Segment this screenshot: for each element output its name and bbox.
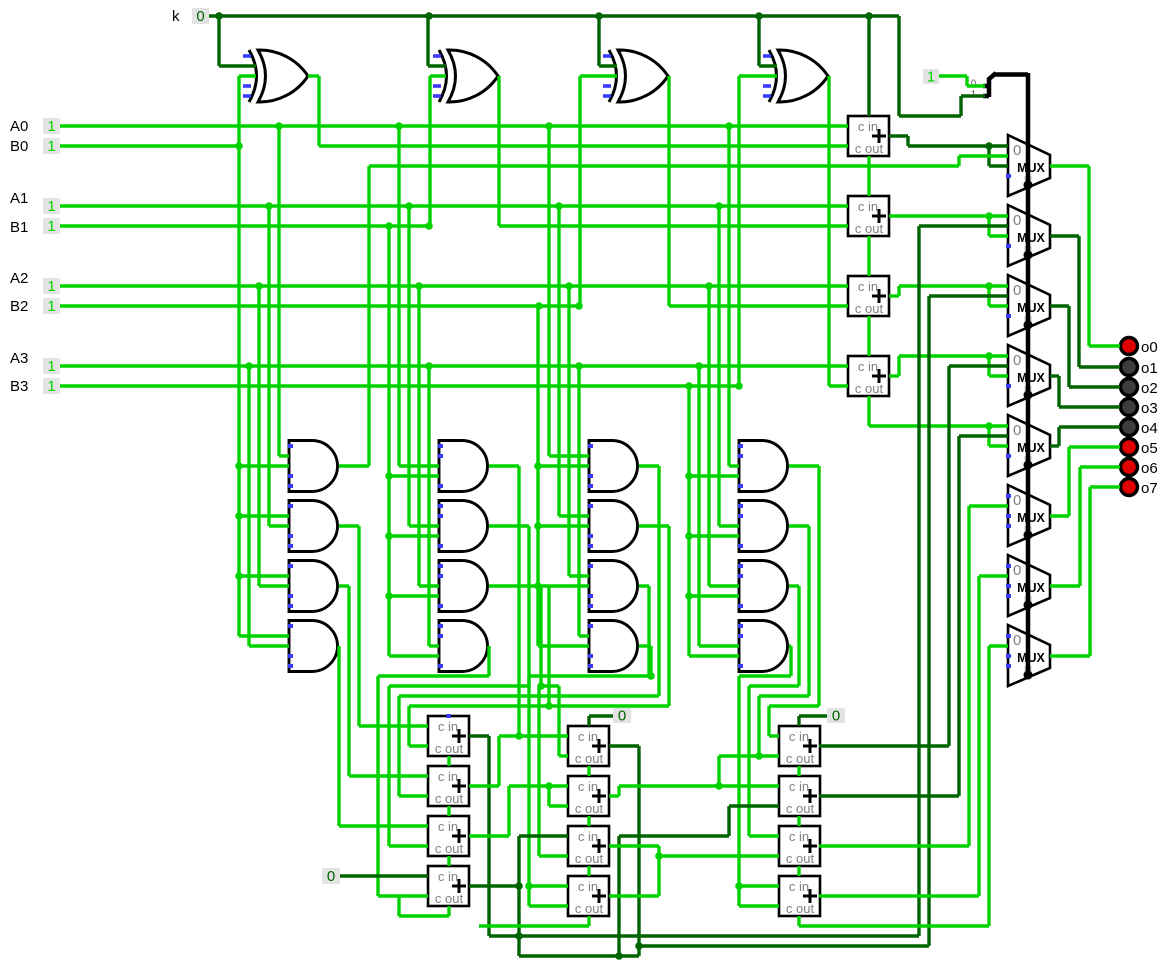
junction B1 col2 [385,222,393,230]
and gate col2 row y586 [439,561,488,612]
wire mux5 out to o4 [1050,427,1120,446]
wire g41 out chain to BR1.A [769,466,819,736]
svg-text:1: 1 [47,358,55,375]
wire g23 out chain to BM1.B/BM3.B [489,586,568,856]
junction col1 B0 g3 [235,572,243,580]
svg-text:MUX: MUX [1017,301,1045,315]
and gate col1 row y526 [289,501,338,552]
junction A0 col1 [275,122,283,130]
junction B2 col3 [535,302,543,310]
svg-text:B3: B3 [10,378,28,395]
svg-text:c out: c out [855,221,884,236]
output pin o3 [1121,399,1138,416]
output pin o6 [1121,459,1138,476]
svg-text:1: 1 [47,278,55,295]
junction A2 col3 [565,282,573,290]
svg-text:MUX: MUX [1017,161,1045,175]
wire B1 to xor2 [430,76,446,226]
constant 0 pin (bottom-left adder cin) [322,868,340,884]
svg-text:0: 0 [1013,142,1021,159]
junction bm x639 [635,942,643,950]
junction g44 br4a [735,882,743,890]
wire p1 vertical [917,226,920,936]
wire A3 line [60,364,848,367]
svg-text:0: 0 [1013,492,1021,509]
mux M2 [1008,205,1050,266]
svg-text:0: 0 [1013,632,1021,649]
wire adder2 sum to mux2 [889,216,1008,236]
junction A3 col1 [245,362,253,370]
xor gate X2 [439,50,447,102]
junction B0 tap [235,142,243,150]
wire mux6 out to o5 [1050,447,1120,516]
svg-text:1: 1 [47,218,55,235]
svg-text:c in: c in [438,819,458,834]
junction col1 B0 g1 [235,462,243,470]
svg-text:c in: c in [578,829,598,844]
wire select bus [1026,73,1031,678]
wire B0 line [60,144,239,147]
wire B0 to xor1 [239,76,256,146]
svg-text:0: 0 [327,868,335,885]
adder BM2 (bottom-middle column) [568,776,609,816]
adder U2 (right column) [848,196,889,236]
mux M6 [1008,485,1050,546]
wire col1 A1 vert [269,206,289,526]
wire B1 line [60,224,430,227]
junction col3 B2 g1 [534,462,542,470]
output pin o2 [1121,379,1138,396]
input pin A2 [43,278,60,294]
wire B2 line [60,304,580,307]
junction g33 bm4a [525,882,533,890]
mux M5 [1008,415,1050,476]
wire g32 out chain to BL1.B [409,526,669,746]
wire adder3 sum to mux3 [889,286,1008,306]
wire BR1 out p3 chain [819,366,1008,746]
svg-text:c out: c out [786,751,815,766]
junction k-3 [595,12,603,20]
wire mux1 out to o0 [1050,166,1120,346]
wire g13 out to BL2.A [339,586,428,776]
junction select tap [1024,321,1032,329]
output pin o7 [1121,479,1138,496]
wire adder4 cout to mux5 [869,396,1008,446]
wire k line [209,16,985,116]
junction A2 col1 [255,282,263,290]
mux M3 [1008,275,1050,336]
svg-text:c out: c out [575,751,604,766]
junction A0 col3 [545,122,553,130]
svg-text:c out: c out [855,301,884,316]
svg-text:o4: o4 [1141,420,1158,437]
junction bl x519 c [515,932,523,940]
svg-text:o2: o2 [1141,380,1158,397]
junction B3 xor4 [735,382,743,390]
wire col3 A0 vert [549,126,589,456]
wire col1 A0 vert [279,126,289,456]
junction s2 mux3 [985,282,993,290]
svg-text:c in: c in [858,279,878,294]
wire g14 out to BL3.A [339,646,428,826]
svg-text:c in: c in [578,879,598,894]
output pin o1 [1121,359,1138,376]
input pin B2 [43,298,60,314]
svg-text:c out: c out [786,801,815,816]
wire g42 out chain to BR1.B [759,526,809,756]
splitter (2-bit select bus) [983,73,996,97]
wire g43 out chain to BR3.A [749,586,799,836]
svg-text:MUX: MUX [1017,231,1045,245]
mux floating in3 stub [1006,174,1011,178]
wire col3 A3 vert [579,366,589,636]
wire g44 out chain to BR4.A/B [739,646,791,906]
mux M8 [1008,625,1050,686]
adder BL1 floating cin stub [447,714,451,718]
wire 0 to BL4.A [340,874,428,877]
junction k-5 [865,12,873,20]
wire mux7 out to o6 [1050,467,1120,586]
wire BM3 cout [587,866,590,876]
svg-text:k: k [172,8,180,25]
wire col3 A2 vert [569,286,589,576]
mux floating stubs [1006,634,1011,638]
wire mux4 out to o3 [1050,376,1120,407]
and gate col2 row y526 [439,501,488,552]
junction col4 B3 g1 [685,472,693,480]
junction A0 col2 [395,122,403,130]
mux floating stubs [1006,494,1011,498]
svg-text:1: 1 [927,69,935,86]
svg-text:c in: c in [789,879,809,894]
svg-text:o1: o1 [1141,360,1158,377]
wire 0 to BR1 cin [799,716,827,726]
adder BL2 (bottom-left column) [428,766,469,806]
input pin constant 1 (select) [923,69,939,84]
junction bm34 x659 [655,852,663,860]
adder BR2 (bottom-right column) [779,776,820,816]
junction col2 B1 g3 [385,592,393,600]
wire g21 out [489,466,519,736]
wire BR4 cout to p7 [799,646,1008,926]
adder BL1 (bottom-left column) [428,716,469,756]
junction A1 col3 [555,202,563,210]
svg-text:c out: c out [435,841,464,856]
mux floating stubs [1006,564,1011,568]
svg-text:B0: B0 [10,138,28,155]
and gate col4 row y526 [739,501,788,552]
input pin A0 [43,118,60,134]
svg-text:0: 0 [1013,282,1021,299]
wire B2 to xor3 [580,76,617,306]
and gate col1 row y466 [289,441,338,492]
svg-text:MUX: MUX [1017,581,1045,595]
junction x719 h786 [715,782,723,790]
wire BR3 out p5 chain [819,506,1008,846]
wire g34 out [639,646,651,676]
wire BM1 out (dark) p2 chain [609,746,929,956]
junction select tap [1024,601,1032,609]
wire col4 B3 vert [689,386,739,656]
svg-text:c out: c out [435,891,464,906]
wire col2 B1 vert [389,226,439,656]
svg-text:c out: c out [786,851,815,866]
and gate col4 row y466 [739,441,788,492]
adder U1 (right column) [848,116,889,156]
wire adder4 sum to mux4 [889,356,1008,376]
junction select tap [1024,181,1032,189]
wire xor3 out [669,76,848,306]
junction col3 B2 g2 [534,522,542,530]
svg-text:1: 1 [47,118,55,135]
svg-text:o6: o6 [1141,460,1158,477]
svg-text:c out: c out [575,801,604,816]
svg-text:c in: c in [578,729,598,744]
svg-text:o5: o5 [1141,440,1158,457]
junction A2 col2 [415,282,423,290]
wire B3 line [60,384,739,387]
xor gate X4 [769,50,777,102]
mux M1 [1008,135,1050,196]
input pin B3 [43,378,60,394]
svg-text:o0: o0 [1141,339,1158,356]
wire col4 A0 vert [729,126,739,466]
wire select bus top [994,72,1028,77]
xor gate X1 [249,50,257,102]
svg-text:c in: c in [438,869,458,884]
wire BM2 out to BR2.A [609,786,779,796]
wire g22 out chain to BL3.B [389,526,529,846]
junction A0 col4 [725,122,733,130]
wire x549 to BM2.B [549,786,568,806]
wire col2 A1 vert [409,206,439,526]
svg-text:MUX: MUX [1017,511,1045,525]
adder BR3 (bottom-right column) [779,826,820,866]
wire 0 to BM1 cin [589,716,613,726]
wire BR3 cout [797,866,800,876]
junction k-4 [755,12,763,20]
junction A1 col1 [265,202,273,210]
adder BM3 (bottom-middle column) [568,826,609,866]
input pin k [192,8,209,24]
wire col1 B0 vert [239,146,289,636]
wire A0 line [60,124,848,127]
junction y706 x549 [545,702,553,710]
wire BL4 cout [399,896,449,916]
junction s4 mux5 [985,422,993,430]
output pin o5 [1121,439,1138,456]
and gate col3 row y646 [589,621,638,672]
junction A3 col4 [695,362,703,370]
svg-text:c out: c out [855,141,884,156]
wire col3 B2 vert [538,306,589,646]
svg-text:c out: c out [575,851,604,866]
junction s3 mux4 [985,352,993,360]
wire BL1 out (dark) p1 chain [469,736,919,936]
wire p2 to mux3 [929,294,1008,297]
mux M7 [1008,555,1050,616]
wire select-1 to splitter [939,76,985,86]
wire col2 A3 vert [429,366,439,646]
svg-text:0: 0 [196,8,204,25]
adder BR4 (bottom-right column) [779,876,820,916]
junction s0 mux1 [985,142,993,150]
wire BL3 out to BM2.A [469,786,568,836]
adder BR1 (bottom-right column) [779,726,820,766]
wire mux2 out to o1 [1050,236,1120,367]
xor gate X3 [609,50,617,102]
wire col4 A2 vert [709,286,739,586]
svg-text:0: 0 [832,708,840,725]
svg-text:o7: o7 [1141,480,1158,497]
svg-text:c in: c in [858,359,878,374]
junction bm2 x549 [545,782,553,790]
svg-text:0: 0 [618,708,626,725]
svg-text:c in: c in [578,779,598,794]
wire B3 to xor4 [739,76,777,386]
wire BL3 cout [447,856,450,866]
wire mux8 out to o7 [1050,487,1120,656]
junction select tap [1024,251,1032,259]
svg-text:MUX: MUX [1017,371,1045,385]
input pin B1 [43,218,60,234]
svg-text:B2: B2 [10,298,28,315]
wire BM2 cout [587,816,590,826]
junction col2 B1 g2 [385,532,393,540]
and gate col4 row y646 [739,621,788,672]
svg-text:1: 1 [47,138,55,155]
svg-text:0: 0 [1013,352,1021,369]
junction col4 B3 g3 [685,592,693,600]
wire BM4 cout jog [479,916,589,926]
wire col2 A2 vert [419,286,439,586]
input pin A3 [43,358,60,374]
wire col1 A3 vert [249,366,289,646]
wire p2 vertical [927,296,930,946]
junction g42 br1b [755,752,763,760]
junction select tap [1024,531,1032,539]
junction k-1 [215,12,223,20]
junction A1 col2 [405,202,413,210]
svg-text:MUX: MUX [1017,441,1045,455]
mux floating in3 stub [1006,244,1011,248]
and gate col3 row y526 [589,501,638,552]
svg-text:c out: c out [435,791,464,806]
wire g33 out chain to BM4 [529,586,651,906]
junction col4 B3 g2 [685,532,693,540]
mux floating in3 stub [1006,314,1011,318]
and gate col2 row y466 [439,441,488,492]
svg-text:c in: c in [438,769,458,784]
wire mux3 out to o2 [1050,306,1120,387]
wire col1 A2 vert [259,286,289,586]
wire p0 g11 to mux1 [339,156,1008,466]
svg-text:o3: o3 [1141,400,1158,417]
wire g31 out chain to BL2.B [399,466,659,796]
wire A1 line [60,204,848,207]
wire dark chain to BR2.B [619,806,779,956]
svg-text:A0: A0 [10,118,28,135]
svg-text:c in: c in [789,829,809,844]
wire g12 out to BL1.A [339,526,428,726]
adder BM1 (bottom-middle column) [568,726,609,766]
svg-text:0: 0 [1013,422,1021,439]
wire BR4 out p6 chain [819,576,1008,896]
wire BL2 out to BM1.A [469,736,568,786]
input pin A1 [43,198,60,214]
junction dark x619 [615,952,623,960]
wire xor2 out [499,76,848,226]
wire adder2 cout to adder3 cin [867,236,870,276]
svg-text:c out: c out [786,901,815,916]
junction B1 xor2 [425,222,433,230]
wire BR2 out p4 chain [819,436,1008,796]
output pin o0 [1121,338,1138,355]
svg-text:c in: c in [789,729,809,744]
constant 0 pin (bottom-right adder cin) [827,708,845,723]
wire col4 A1 vert [719,206,739,526]
wire BM3/BM4 out to BR3.B [609,846,779,896]
svg-text:c in: c in [858,119,878,134]
adder U3 (right column) [848,276,889,316]
adder BM4 (bottom-middle column) [568,876,609,916]
junction select tap [1024,671,1032,679]
junction select tap [1024,461,1032,469]
junction g34 x651 [647,672,655,680]
junction select tap [1024,391,1032,399]
junction B2 xor3 [575,302,583,310]
mux floating in3 stub [1006,454,1011,458]
adder BL3 (bottom-left column) [428,816,469,856]
junction col1 B0 g2 [235,512,243,520]
adder BL4 (bottom-left column) [428,866,469,906]
wire adder1 cout to adder2 cin [867,156,870,196]
svg-text:A3: A3 [10,350,28,367]
wire col3 A1 vert [559,206,589,516]
wire xor4 out [829,76,848,386]
svg-text:c out: c out [855,381,884,396]
and gate col1 row y586 [289,561,338,612]
wire BL1 cout [447,756,450,766]
svg-text:A1: A1 [10,190,28,207]
wire col4 A3 vert [699,366,739,646]
and gate col4 row y586 [739,561,788,612]
junction g23 x541 [537,682,545,690]
junction s1 mux2 [985,212,993,220]
wire adder1 sum to mux1 [889,136,1008,166]
wire col2 A0 vert [399,126,439,466]
input pin B0 [43,138,60,154]
and gate col3 row y466 [589,441,638,492]
svg-text:1: 1 [47,198,55,215]
wire BR2 cout [797,816,800,826]
svg-text:1: 1 [47,378,55,395]
output pin o4 [1121,419,1138,436]
svg-text:c in: c in [858,199,878,214]
mux M4 [1008,345,1050,406]
svg-text:c in: c in [438,719,458,734]
svg-text:c in: c in [789,779,809,794]
wire BR1.B row [719,756,779,786]
junction col3 B2 g3 [534,582,542,590]
junction A1 col4 [715,202,723,210]
svg-text:c out: c out [435,741,464,756]
wire xor1 out [308,76,848,146]
wire A2 line [60,284,848,287]
junction col2 B1 g1 [385,472,393,480]
wire p1 to mux2 [919,224,1008,227]
svg-text:B1: B1 [10,219,28,236]
